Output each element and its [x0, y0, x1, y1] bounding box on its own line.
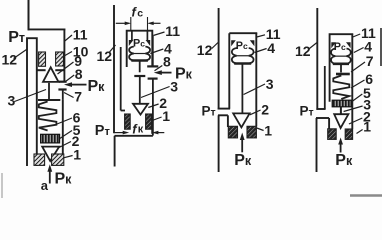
bellows stem (panel4) — [340, 65, 342, 73]
leader 5 (panel1) — [60, 131, 72, 139]
valve stem 3 (panel3) — [241, 65, 243, 114]
seat 1 right block (panel2) — [146, 114, 152, 129]
leader 11 (panel4) — [353, 34, 360, 37]
svg-text:7: 7 — [74, 89, 82, 105]
svg-text:Рс: Рс — [236, 40, 248, 52]
svg-text:Рк: Рк — [335, 152, 353, 169]
page rule bottom right — [350, 194, 382, 196]
poppet 2: lower triangle valve (panel1) — [42, 147, 59, 161]
wire: panel3 pipe bottom cap — [218, 108, 230, 110]
leader 2 (panel2) — [148, 104, 158, 108]
contact plate 8 (panel2) — [134, 75, 145, 77]
poppet 2 triangle (panel4) — [334, 114, 348, 128]
svg-text:а: а — [41, 178, 49, 193]
wire: panel1 top horizontal pipe — [28, 28, 66, 30]
svg-text:11: 11 — [165, 23, 180, 39]
leader 1 (panel2) — [152, 117, 161, 121]
port flange upper (panel1) — [59, 81, 67, 83]
wire: panel4 pipe bottom cap — [316, 108, 325, 110]
leader 2 (panel3) — [250, 110, 261, 115]
svg-text:1: 1 — [264, 122, 272, 138]
leader 10 (panel1) — [62, 52, 73, 58]
leader 2 (panel1) — [58, 142, 71, 149]
leader 12 (panel2) — [110, 45, 116, 52]
bellows bracket left (panel2) — [129, 40, 134, 46]
seat 1 left block (panel3) — [228, 126, 237, 138]
leader 6 (panel1) — [56, 118, 72, 125]
leader 5 (panel4) — [352, 94, 362, 102]
wire: panel1 body right wall upper — [63, 29, 65, 82]
leader 9 (panel1) — [58, 62, 74, 74]
leader 4 (panel4) — [354, 48, 364, 53]
leader 11 (panel1) — [65, 35, 72, 41]
wire: panel3 inner left wall (box side) — [228, 33, 230, 108]
svg-text:3: 3 — [266, 76, 274, 92]
svg-text:1: 1 — [162, 108, 170, 124]
svg-text:11: 11 — [73, 27, 88, 43]
spring 6 (panel4) — [333, 76, 349, 100]
bellows housing 11 (panel2) — [127, 31, 153, 67]
leader 2 (panel4) — [349, 118, 362, 124]
page edge artifact right — [380, 28, 382, 66]
leader 1 (panel1) — [64, 156, 73, 158]
flow arrow Pk (panel4) — [340, 144, 342, 153]
bellows bracket left (panel3) — [231, 40, 236, 46]
leader 3 (panel4) — [344, 106, 363, 112]
bellows 4 (panel3) — [232, 48, 254, 64]
poppet 2 triangle (panel3) — [233, 113, 249, 127]
leader 7 (panel4) — [351, 62, 365, 72]
port flange lower / item 7 stop (panel1) — [58, 88, 66, 90]
bellows housing 11 (panel3) — [229, 32, 256, 35]
leader 4 (panel2) — [150, 49, 163, 54]
wire: panel2 inner left wall — [120, 47, 122, 111]
svg-text:12: 12 — [97, 48, 113, 64]
seat bushing 10 right (panel1) — [56, 52, 64, 66]
bellows bracket right (panel4) — [346, 42, 351, 48]
svg-text:4: 4 — [364, 38, 372, 54]
dimension fc extension lines (panel2) — [130, 17, 132, 31]
wire: panel2 drain pipe — [114, 136, 116, 167]
stem between poppet and spring plate (panel1) — [48, 83, 50, 100]
svg-text:к: к — [138, 123, 144, 135]
bellows 4 (panel4) — [331, 49, 351, 64]
svg-text:с: с — [137, 8, 143, 20]
spring plate 7 (panel1) — [38, 99, 60, 101]
wire: panel2 inner wall jog to seat — [121, 110, 125, 112]
wire: panel2 outer left pipe — [113, 5, 115, 133]
spring 6 (panel1) — [39, 102, 57, 131]
arrow Pk (panel2) — [161, 72, 172, 74]
svg-text:4: 4 — [267, 40, 275, 56]
svg-text:Рк: Рк — [234, 152, 252, 169]
seat 1 left block (panel4) — [328, 129, 337, 140]
seat extension tick (panel2) — [151, 129, 153, 134]
svg-text:1: 1 — [73, 147, 81, 163]
port ledge (panel4) — [316, 117, 329, 119]
wire: panel4 right wall — [351, 34, 353, 129]
svg-text:Рт: Рт — [95, 123, 111, 139]
svg-text:3: 3 — [170, 78, 178, 94]
pipe 12 (panel1): supply tube — [27, 38, 37, 166]
bellows 4 (panel2) — [129, 47, 150, 61]
leader 8 (panel2) — [155, 66, 163, 71]
housing inner wall left (panel2) — [131, 31, 133, 41]
svg-text:Рс: Рс — [334, 41, 346, 53]
svg-text:12: 12 — [295, 43, 311, 59]
port ledge (panel3) — [218, 114, 228, 116]
svg-text:Рт: Рт — [8, 29, 25, 46]
svg-text:8: 8 — [163, 53, 171, 69]
svg-text:Рс: Рс — [133, 37, 145, 49]
dimension fk left arrow (panel2) — [114, 132, 123, 134]
poppet 9: upper triangle valve (panel1) — [43, 67, 59, 82]
leader 11 (panel3) — [257, 35, 265, 37]
svg-text:1: 1 — [363, 118, 371, 134]
contact plate 7 (panel4) — [336, 73, 350, 76]
flow arrow Pk (panel3) — [241, 139, 243, 152]
seat 1 right block (panel1) — [52, 154, 64, 165]
upper flange of side port (panel2) — [147, 65, 158, 67]
flow arrow a (panel1) — [49, 171, 51, 184]
seat 1 left block (panel2) — [125, 114, 131, 129]
wire: panel2 right wall lower — [152, 79, 154, 136]
leader 6 (panel4) — [351, 80, 365, 88]
leader 11 (panel2) — [153, 32, 164, 36]
svg-text:12: 12 — [197, 42, 213, 58]
svg-text:12: 12 — [2, 52, 18, 68]
housing inner wall right (panel2) — [146, 31, 148, 41]
dimension fc right arrow (panel2) — [153, 22, 161, 24]
piston 5 (panel1): striped block — [41, 134, 60, 143]
bellows housing 11 (panel4) — [330, 34, 353, 102]
leader 1 (panel3) — [257, 128, 264, 131]
seat ledge right (panel1) — [55, 69, 63, 71]
leader 1 (panel4) — [357, 130, 363, 134]
leader 12 (panel1) — [14, 50, 27, 59]
wire: panel1 body right wall lower — [62, 100, 64, 155]
piston 5 (panel4): striped block — [332, 100, 351, 107]
dimension fc left arrow (panel2) — [116, 22, 126, 24]
valve stem 3 (panel2) — [139, 76, 141, 104]
wire: panel4 outer left pipe upper — [316, 8, 318, 110]
arrow Pk side (panel1) — [71, 84, 87, 86]
wire: panel3 outer left wall lower — [218, 115, 220, 172]
seat 1 left block (panel1) — [34, 154, 45, 165]
leader 7 (panel1) — [64, 93, 74, 98]
seat 1 right block (panel4) — [345, 129, 352, 139]
page edge artifact bottom left — [1, 173, 3, 198]
leader 8 (panel1) — [66, 75, 75, 82]
seat 1 right block (panel3) — [247, 126, 256, 138]
wire: panel3 right wall — [255, 33, 257, 126]
svg-text:2: 2 — [261, 101, 269, 117]
wire: panel4 inner pipe line — [324, 66, 326, 109]
svg-text:Рк: Рк — [55, 171, 73, 188]
lower flange of side port (panel2) — [148, 77, 158, 79]
seat bushing 10 left (panel1) — [39, 52, 46, 66]
poppet 2 triangle (panel2) — [133, 104, 148, 115]
leader 3 (panel3) — [244, 84, 265, 95]
wire: panel4 notch wall — [328, 118, 330, 129]
seat ledge left (panel1) — [37, 69, 45, 71]
svg-text:Рк: Рк — [88, 78, 106, 95]
svg-text:Рт: Рт — [300, 104, 314, 119]
svg-text:7: 7 — [366, 53, 374, 69]
wire: panel3 notch wall — [227, 115, 229, 127]
leader 12 (panel4) — [309, 43, 317, 50]
leader 3 (panel2) — [141, 87, 170, 98]
chamber bottom wall (panel2) — [115, 135, 153, 137]
svg-text:3: 3 — [8, 93, 16, 109]
leader 12 (panel3) — [212, 43, 218, 49]
dimension fk right arrow (panel2) — [157, 132, 164, 134]
bellows bracket right (panel2) — [146, 40, 151, 46]
wire: panel3 outer left pipe upper — [218, 8, 220, 110]
wire: panel1 top vertical pipe — [28, 0, 30, 30]
wire: panel4 outer left wall lower — [316, 118, 318, 172]
svg-text:Рт: Рт — [202, 103, 216, 118]
valve stem 3 (panel4) — [340, 107, 342, 114]
bellows bracket right (panel3) — [250, 40, 255, 46]
leader 3 (panel1) — [15, 90, 47, 102]
svg-text:8: 8 — [75, 66, 83, 82]
leader 4 (panel3) — [255, 49, 267, 53]
bellows bracket left (panel4) — [331, 42, 336, 48]
bellows stem (panel2) — [139, 62, 141, 73]
